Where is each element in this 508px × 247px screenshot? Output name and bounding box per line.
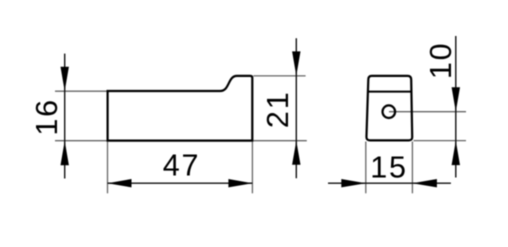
svg-text:21: 21 — [261, 91, 295, 129]
svg-text:16: 16 — [30, 98, 64, 136]
svg-text:47: 47 — [163, 149, 201, 183]
svg-text:15: 15 — [370, 151, 408, 185]
svg-text:10: 10 — [424, 42, 458, 80]
